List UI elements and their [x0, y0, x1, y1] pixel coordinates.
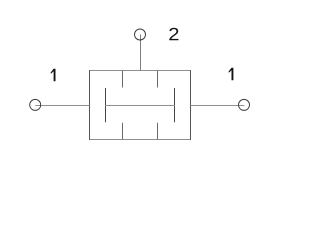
center electrode left plate — [105, 88, 107, 122]
wire pin 1 right lead — [191, 105, 245, 107]
ground electrode top-left stub — [122, 71, 124, 88]
pin number label 1 (left) — [51, 69, 56, 82]
capacitor C1 case outline left edge — [89, 70, 91, 140]
ground electrode bottom-left stub — [122, 123, 124, 140]
wire pin 2 top lead — [140, 35, 142, 71]
pin terminal circle top — [135, 29, 146, 40]
center electrode horizontal bar — [105, 105, 175, 107]
center electrode right plate — [174, 88, 176, 122]
pin number label 1 (right) — [229, 68, 234, 81]
capacitor C1 case outline bottom edge — [89, 139, 191, 141]
pin number label 2 (top) — [169, 28, 178, 40]
ground electrode bottom-right stub — [157, 123, 159, 140]
ground electrode top-right stub — [157, 71, 159, 88]
capacitor C1 case outline right edge — [190, 70, 192, 140]
capacitor C1 case outline top edge — [89, 70, 191, 72]
pin terminal circle left — [30, 99, 41, 110]
pin terminal circle right — [239, 99, 250, 110]
wire pin 1 left lead — [35, 105, 89, 107]
